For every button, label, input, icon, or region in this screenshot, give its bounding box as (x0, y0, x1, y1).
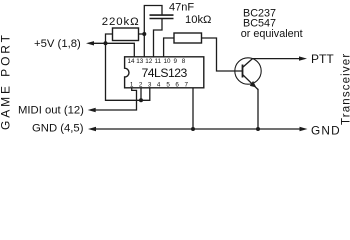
svg-text:7: 7 (185, 81, 189, 88)
svg-text:3: 3 (148, 81, 152, 88)
svg-text:14: 14 (127, 58, 135, 65)
svg-text:74LS123: 74LS123 (142, 66, 188, 80)
svg-text:47nF: 47nF (169, 2, 194, 14)
svg-text:11: 11 (155, 58, 162, 65)
svg-text:220kΩ: 220kΩ (102, 16, 140, 28)
svg-text:8: 8 (182, 58, 186, 65)
svg-text:PTT: PTT (311, 52, 334, 66)
svg-text:6: 6 (175, 81, 179, 88)
svg-text:10kΩ: 10kΩ (185, 14, 211, 26)
svg-text:+5V (1,8): +5V (1,8) (34, 38, 81, 50)
svg-text:5: 5 (166, 81, 170, 88)
svg-text:GAME PORT: GAME PORT (0, 32, 12, 130)
svg-text:12: 12 (145, 58, 153, 65)
svg-text:GND (4,5): GND (4,5) (32, 122, 84, 134)
svg-text:Transceiver: Transceiver (341, 53, 350, 125)
svg-text:2: 2 (139, 81, 143, 88)
svg-text:or equivalent: or equivalent (241, 28, 303, 40)
svg-text:13: 13 (136, 58, 144, 65)
svg-text:GND: GND (311, 124, 341, 138)
svg-text:4: 4 (157, 81, 161, 88)
svg-text:10: 10 (163, 58, 171, 65)
svg-text:9: 9 (173, 58, 177, 65)
svg-text:1: 1 (130, 81, 134, 88)
svg-text:MIDI out (12): MIDI out (12) (18, 104, 84, 116)
